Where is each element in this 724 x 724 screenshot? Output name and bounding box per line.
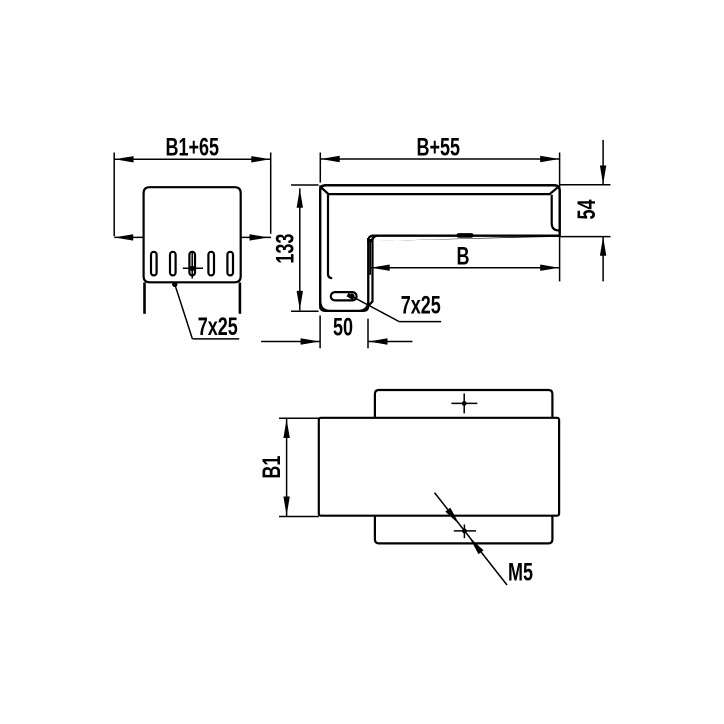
dimension B1+65: [114, 133, 271, 237]
slot 7x25 (side view): [331, 292, 357, 300]
label M5 with leader: [435, 493, 533, 587]
svg-text:54: 54: [572, 199, 601, 219]
right leg: [239, 283, 242, 314]
slot 2: [170, 252, 176, 276]
slot 4: [208, 252, 214, 276]
slot 3 center mark: [183, 253, 203, 279]
slot 1: [151, 252, 157, 276]
bracket profile outline (side view): [320, 185, 559, 306]
svg-text:B1: B1: [257, 456, 286, 479]
right edge lip hook: [552, 195, 559, 231]
label 7x25 (front view): [172, 282, 239, 341]
svg-text:7x25: 7x25: [401, 291, 441, 320]
svg-text:B: B: [457, 241, 470, 270]
svg-text:7x25: 7x25: [198, 312, 238, 341]
dimension 133: [270, 185, 318, 311]
bottom tab hole center mark: [454, 525, 476, 539]
svg-text:B1+65: B1+65: [166, 133, 220, 162]
svg-text:50: 50: [333, 313, 353, 342]
dimension B: [370, 240, 559, 275]
dimension 50: [261, 313, 412, 349]
slot 3: [189, 252, 195, 276]
stamped tab on arm bottom: [456, 233, 473, 238]
left wing arrow: [114, 234, 143, 240]
main plate (top view): [319, 418, 559, 516]
dimension 54: [560, 140, 611, 282]
right wing arrow: [241, 234, 271, 240]
top tab plate: [375, 390, 553, 420]
bracket body (front view): [144, 187, 241, 282]
inner left face line: [328, 195, 332, 278]
dimension B+55: [320, 132, 559, 281]
svg-text:133: 133: [270, 234, 299, 264]
bottom tab plate: [375, 513, 553, 543]
svg-text:M5: M5: [508, 558, 533, 587]
slot 5: [227, 252, 233, 276]
left leg: [143, 283, 146, 314]
inner contour: top chamfers and inner top line: [321, 187, 558, 194]
svg-text:B+55: B+55: [416, 132, 459, 161]
label 7x25 (side view): [348, 291, 442, 322]
dimension B1: [257, 418, 319, 516]
top tab hole center mark: [451, 393, 477, 413]
